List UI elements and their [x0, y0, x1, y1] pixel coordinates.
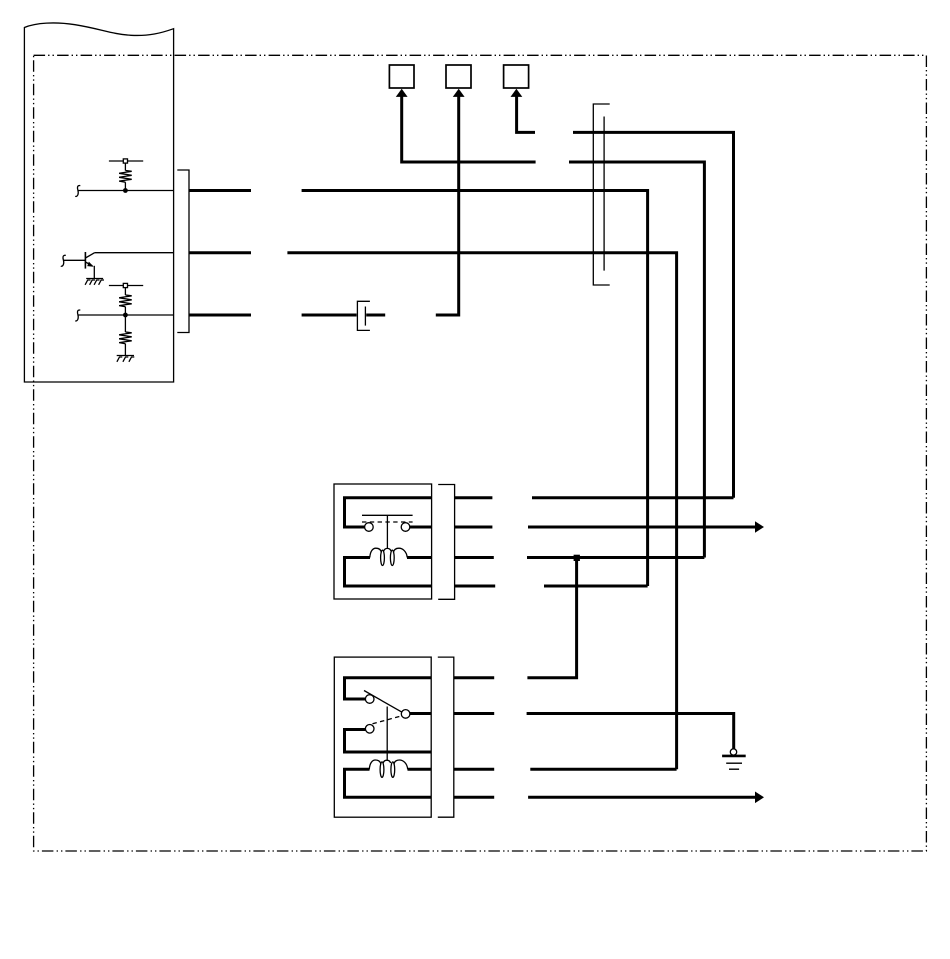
node J2 junction dot — [123, 313, 128, 318]
terminal box T2 — [446, 65, 471, 88]
terminal box T1 — [389, 65, 414, 88]
contact RL1 right — [401, 523, 410, 532]
switch SW2 blade — [364, 691, 402, 713]
connector CN2 (in-line on net C) — [357, 301, 370, 330]
wire RL2 pin2 internal — [410, 712, 431, 715]
wire RL2 pin2 stub — [454, 712, 494, 715]
wire ECU pin1 internal — [75, 186, 173, 197]
wire RL1 pin4 stub — [455, 585, 496, 588]
system boundary dash-dot border — [34, 55, 927, 851]
arrow output RL2 pin4 — [755, 792, 764, 804]
wire RL2 pin4 output — [528, 796, 756, 799]
wire net D (through CN3 to relay RL1 pin3) — [569, 162, 704, 558]
transistor Q1 — [61, 252, 95, 279]
connector bracket CN4 (RL1) — [438, 485, 454, 600]
wire RL1 pin2 stub — [455, 526, 493, 529]
contact RL1 left — [365, 523, 374, 532]
resistor R3 (pull-down to ground) — [119, 315, 132, 356]
link armature RL1 — [386, 515, 388, 548]
wire net B (pin2 to relay RL2 pin3) — [287, 253, 676, 770]
relay RL2 box — [334, 657, 431, 817]
wire RL1 pin1 internal — [345, 498, 432, 527]
coil L2 — [369, 760, 407, 777]
contact RL2 middle-right — [401, 710, 410, 719]
wire RL1 pin1 harness (from net E) — [532, 496, 734, 499]
connector bracket CN1 (ECU) — [177, 170, 189, 333]
wire net F (J3 down to RL2 pin1) — [527, 558, 576, 678]
arrow output RL1 pin2 — [755, 521, 764, 533]
wire ECU pin1 stub — [189, 189, 251, 192]
switch SW1 link (dashed) — [362, 521, 413, 523]
wire RL1 coil-left to pin4 internal — [345, 558, 432, 587]
wire RL2 pin3 stub — [454, 768, 494, 771]
terminal box T3 — [504, 65, 529, 88]
relay RL1 box — [334, 484, 432, 599]
wire RL2 pin1 stub — [454, 676, 494, 679]
ECU box U1 (torn top edge) — [24, 23, 173, 382]
connector CN3 (in-line harness) — [593, 104, 609, 285]
wire net C segment (pin3 to connector CN2) — [302, 314, 357, 317]
switch SW2 link (dashed) — [373, 716, 402, 724]
wire net E (through CN3 to relay RL1 pin1) — [573, 132, 734, 497]
switch SW1 blade — [362, 514, 413, 516]
contact RL2 upper-left — [365, 695, 374, 704]
wire RL1 pin3 harness (from net D) — [527, 556, 704, 559]
ground G3 (earth) — [722, 749, 746, 769]
wire RL1 pin2 output — [528, 526, 756, 529]
link armature RL2 — [386, 707, 388, 761]
wire RL1 pin4 harness (from net A) — [544, 585, 648, 588]
arrow into T1 — [396, 89, 408, 97]
wire ECU pin3 stub — [189, 314, 251, 317]
wire net A (pin1 to relay RL1 pin4) — [302, 191, 648, 587]
arrow into T3 — [511, 89, 523, 97]
wire RL2 pin1 internal — [345, 678, 432, 699]
resistor R1 (pull-up on pin 1 line) — [109, 159, 143, 191]
wire RL2 lower contact internal — [345, 730, 432, 753]
wire ECU pin2 stub — [189, 251, 251, 254]
wire terminal T1 drop (net D) — [402, 97, 536, 163]
ground G1 (transistor emitter) — [85, 279, 104, 285]
wire terminal T3 drop (net E stub) — [517, 97, 535, 133]
wire RL1 pin3 stub — [455, 556, 494, 559]
arrow into T2 — [453, 89, 465, 97]
wire net C segment (to terminal T2) — [436, 97, 459, 316]
wire ECU pin2 internal (collector) — [95, 252, 174, 254]
contact RL2 lower-left — [365, 725, 374, 734]
wire RL2 pin3 harness (from net B) — [530, 768, 676, 771]
resistor R2 (pull-up on pin 3 line) — [109, 283, 143, 315]
wire net C segment (CN2 right side) — [366, 314, 385, 317]
wire RL1 pin2 internal — [410, 526, 432, 529]
wire RL1 pin1 stub — [455, 496, 493, 499]
wire RL2 pin2 to ground — [527, 714, 734, 750]
wire ECU pin3 internal — [75, 310, 173, 321]
node J3 junction (net D tap) — [574, 555, 580, 561]
wire RL2 coil-right to pin3 — [408, 768, 432, 771]
node J1 junction dot — [123, 188, 128, 193]
wire RL1 coil-right to pin3 — [407, 556, 432, 559]
ground G2 (below R3) — [117, 356, 135, 362]
connector bracket CN5 (RL2) — [438, 657, 454, 817]
coil L1 — [370, 548, 407, 565]
wire RL2 coil-left to pin4 internal — [345, 769, 432, 797]
wire RL2 pin4 stub — [454, 796, 494, 799]
